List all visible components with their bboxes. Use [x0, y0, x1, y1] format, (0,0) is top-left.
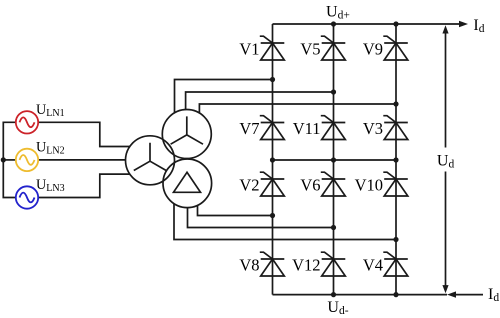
thyristor V9 [383, 36, 408, 60]
wire bridge column 3 [395, 24, 397, 295]
svg-text:V8: V8 [239, 256, 259, 275]
node B phase b upper bridge [331, 89, 336, 94]
AC source U_LN1 [16, 111, 38, 133]
thyristor V4 [383, 252, 408, 276]
AC source U_LN3 [16, 186, 38, 208]
wire wye secondary phase c to node C [199, 104, 396, 113]
arrow I_d top [459, 21, 468, 27]
node top rail column 3 [393, 21, 398, 26]
wire delta secondary phase c to node F [174, 204, 396, 240]
node top rail column 2 [331, 21, 336, 26]
node bottom rail column 3 [393, 292, 398, 297]
svg-text:V12: V12 [292, 256, 320, 275]
node bottom rail column 2 [331, 292, 336, 297]
arrow I_d bottom [447, 291, 456, 297]
thyristor V10 [383, 172, 408, 196]
svg-text:Id: Id [473, 17, 484, 35]
wire bridge column 1 [272, 24, 274, 295]
thyristor V3 [383, 116, 408, 140]
arrow U_d up [442, 25, 448, 33]
wire top rail U_d+ [273, 23, 461, 25]
wire bridge column 2 [333, 24, 335, 295]
node F phase c lower bridge [393, 237, 398, 242]
thyristor V5 [321, 36, 346, 60]
svg-text:V5: V5 [300, 40, 320, 59]
wire wye secondary phase b to node B [186, 92, 334, 110]
node mid rail column 1 [270, 157, 275, 162]
svg-text:V1: V1 [239, 40, 259, 59]
svg-text:V9: V9 [363, 40, 383, 59]
arrow U_d down [442, 285, 448, 293]
thyristor V2 [260, 172, 285, 196]
thyristor V12 [321, 252, 346, 276]
thyristor V8 [260, 252, 285, 276]
thyristor V7 [260, 116, 285, 140]
thyristor V6 [321, 172, 346, 196]
wire I_d output shaft bottom [453, 294, 483, 296]
wire wye secondary phase a to node A [175, 80, 273, 113]
wire U_d measure upper [445, 30, 447, 148]
svg-text:Ud: Ud [437, 152, 455, 170]
node E phase b lower bridge [331, 225, 336, 230]
transformer primary wye winding [126, 136, 175, 185]
svg-text:ULN1: ULN1 [36, 102, 65, 119]
node mid rail column 3 [393, 157, 398, 162]
svg-text:V7: V7 [239, 119, 259, 138]
node C phase c upper bridge [393, 101, 398, 106]
svg-text:Ud-: Ud- [327, 299, 348, 317]
svg-text:V2: V2 [239, 176, 259, 195]
AC source U_LN2 [16, 149, 38, 171]
wire delta secondary phase a to node D [198, 205, 273, 215]
wire bottom rail U_d- [273, 294, 448, 296]
svg-text:V3: V3 [363, 119, 383, 138]
thyristor V11 [321, 116, 346, 140]
svg-text:V6: V6 [300, 176, 320, 195]
wire left neutral bus [3, 122, 16, 197]
transformer secondary wye winding [162, 110, 211, 159]
svg-text:V4: V4 [363, 256, 383, 275]
svg-text:V11: V11 [293, 119, 321, 138]
node neutral junction [1, 157, 6, 162]
wire phase L2 source to transformer [38, 159, 125, 161]
wire neutral stub to U_LN2 [3, 159, 16, 161]
wire phase L1 source to transformer [38, 122, 130, 146]
svg-text:ULN2: ULN2 [36, 139, 65, 156]
thyristor V1 [260, 36, 285, 60]
wire mid rail between bridges [273, 159, 397, 161]
node mid rail column 2 [331, 157, 336, 162]
wire U_d measure lower [445, 172, 447, 289]
svg-text:Ud+: Ud+ [326, 4, 350, 22]
svg-text:Id: Id [488, 286, 499, 304]
node A phase a upper bridge [270, 77, 275, 82]
transformer secondary delta winding [163, 159, 212, 208]
wire delta secondary phase b to node E [188, 208, 334, 228]
wire phase L3 source to transformer [38, 174, 130, 197]
node D phase a lower bridge [270, 213, 275, 218]
svg-text:ULN3: ULN3 [36, 177, 65, 194]
svg-text:V10: V10 [355, 176, 383, 195]
